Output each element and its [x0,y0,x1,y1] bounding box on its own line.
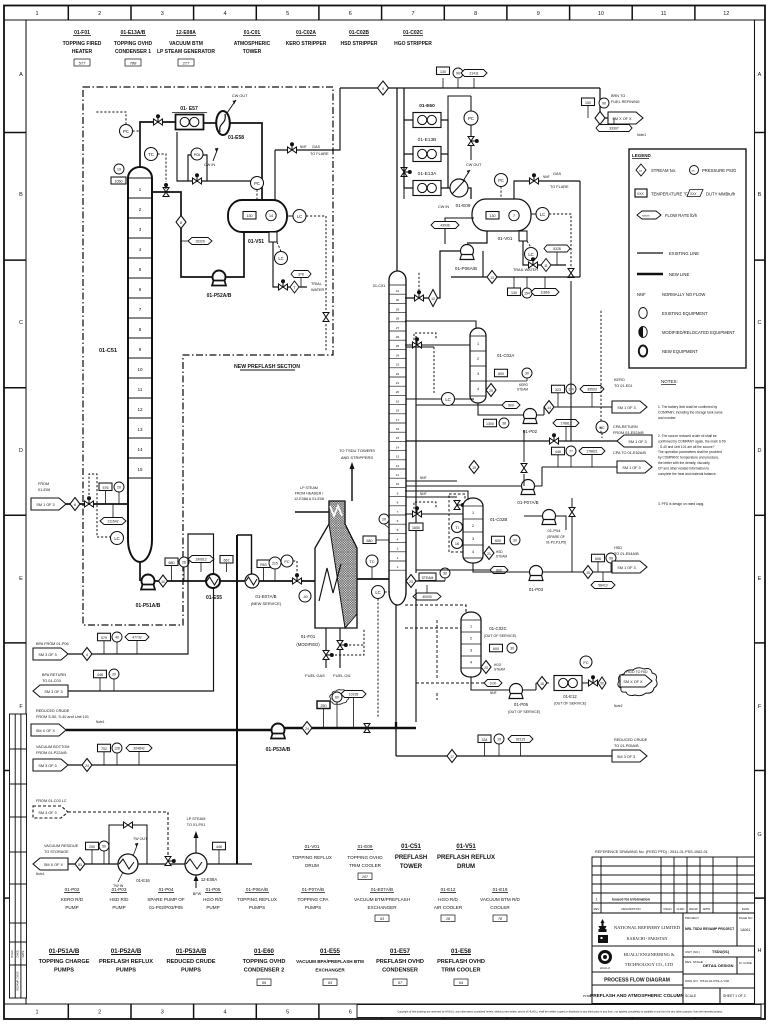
svg-text:HGO R/D: HGO R/D [438,897,458,902]
exchanger 01-E58 [216,111,230,135]
svg-text:10195: 10195 [349,693,359,697]
svg-text:Note1: Note1 [36,872,45,876]
svg-text:FC: FC [599,425,604,430]
svg-text:7: 7 [513,214,515,218]
column 01-C51 preflash tower [128,167,152,562]
svg-text:800: 800 [498,372,504,376]
wire C51 overhead [140,122,175,167]
trail water drain V01 [523,241,566,265]
svg-text:PC: PC [123,129,129,134]
C02A bottoms to pump 01-P02 [478,403,524,415]
svg-text:HGO TO R/D: HGO TO R/D [626,670,648,674]
svg-text:20: 20 [484,666,488,670]
pump 01-P06A/B [405,231,487,298]
svg-text:01-V01: 01-V01 [498,236,513,241]
svg-text:12: 12 [137,407,143,412]
stripper 01-C02C hgo stripper (out of service) [461,612,481,677]
HGO line to 01-E12 [523,683,550,690]
svg-text:DUTY MMBtu/h: DUTY MMBtu/h [706,192,736,197]
svg-text:800: 800 [508,404,514,408]
svg-text:SM 1 OF 3: SM 1 OF 3 [617,406,635,410]
svg-text:9: 9 [397,491,399,495]
svg-text:HSD STRIPPER: HSD STRIPPER [341,41,378,47]
top line to BRN [340,87,600,89]
valve NNF on LC line [323,313,329,322]
svg-text:01-E13B: 01-E13B [418,137,437,143]
svg-text:702: 702 [101,747,107,751]
svg-text:DATE: DATE [21,950,25,957]
svg-text:EXCHANGER: EXCHANGER [315,968,345,973]
svg-text:FC: FC [284,559,289,564]
svg-text:TOWER: TOWER [243,49,262,55]
svg-text:01-E60: 01-E60 [254,948,275,955]
svg-text:28: 28 [396,317,400,321]
svg-text:LC: LC [540,212,545,217]
svg-text:47732: 47732 [132,636,142,640]
svg-text:2: 2 [397,556,399,560]
svg-text:PC: PC [468,116,474,121]
svg-text:12-E08A: 12-E08A [201,877,218,882]
svg-text:10: 10 [161,580,165,584]
svg-text:REDUCED CRUDE: REDUCED CRUDE [166,959,215,965]
hexagon 43936 suction [445,218,474,244]
C51 tray lines [128,178,152,478]
svg-text:1300: 1300 [486,422,494,426]
bottom water line [451,251,580,277]
svg-text:250: 250 [89,845,95,849]
svg-text:60: 60 [335,696,339,700]
svg-text:KERO STRIPPER: KERO STRIPPER [286,41,327,47]
svg-text:LC: LC [297,214,302,219]
tags on P53 discharge with cloud [317,701,330,709]
svg-text:DSGN: DSGN [10,950,14,958]
svg-text:01-P51A/B: 01-P51A/B [49,948,80,955]
instrument LC boot [275,252,288,265]
svg-text:31: 31 [396,289,400,293]
tags right of C01 mid [409,523,423,531]
svg-text:10: 10 [137,367,143,372]
valve overhead [154,114,163,125]
svg-text:(OUT OF SERVICE): (OUT OF SERVICE) [484,634,517,638]
svg-text:7: 7 [411,11,414,17]
svg-text:24: 24 [85,764,89,768]
CPA product line [535,467,618,486]
vacuum residue line with exchangers [68,863,252,865]
diamond 20 [486,384,496,397]
svg-text:SPARE PUMP OF: SPARE PUMP OF [147,897,185,902]
svg-text:SM 3 OF 3: SM 3 OF 3 [38,811,56,815]
V01 boot and LC [519,231,527,241]
svg-text:DES. STAGE: DES. STAGE [685,960,703,964]
svg-text:NNF: NNF [637,292,646,297]
svg-text:APPD: APPD [703,907,711,911]
svg-text:6: 6 [349,1010,352,1016]
svg-text:30: 30 [443,572,447,576]
svg-text:MODIFIED/RELOCATED EQUIPMENT: MODIFIED/RELOCATED EQUIPMENT [662,330,735,335]
svg-text:20: 20 [112,673,116,677]
svg-text:23: 23 [409,580,413,584]
svg-text:01-C51: 01-C51 [99,348,117,354]
svg-text:01-E57: 01-E57 [390,948,411,955]
svg-text:D: D [758,448,762,454]
svg-text:01-E12: 01-E12 [441,887,456,892]
svg-text:TOPPING CPA: TOPPING CPA [298,897,330,902]
HUALU logo [598,950,612,964]
svg-text:PUMPS: PUMPS [181,968,201,974]
svg-text:CONDENSER 1: CONDENSER 1 [115,49,151,55]
svg-text:TO TSDU TOWERS: TO TSDU TOWERS [339,448,375,453]
svg-text:3: 3 [161,1010,164,1016]
svg-text:PREFLASH AND ATMOSPHERIC COLUM: PREFLASH AND ATMOSPHERIC COLUMN [590,993,684,998]
svg-text:G: G [757,832,761,838]
svg-text:STREAM No.: STREAM No. [651,168,676,173]
svg-text:LP STEAM GENERATOR: LP STEAM GENERATOR [157,49,215,55]
svg-text:NEW LINE: NEW LINE [669,272,689,277]
svg-text:600: 600 [493,647,499,651]
svg-text:01-E58: 01-E58 [228,135,244,141]
svg-text:01-E09: 01-E09 [456,203,471,208]
PC V01 [495,174,508,187]
C02B bottoms to pump 01-P03 [473,563,530,572]
svg-text:448: 448 [97,673,103,677]
svg-text:STEAM: STEAM [422,576,434,580]
svg-text:130: 130 [511,291,517,295]
svg-text:ATMOSPHERIC: ATMOSPHERIC [234,41,271,47]
svg-text:M. CODE: M. CODE [739,961,752,965]
svg-text:STEAM: STEAM [496,555,507,559]
svg-text:1A061: 1A061 [740,928,750,932]
svg-text:DSGN: DSGN [663,907,671,911]
svg-text:680: 680 [367,539,373,543]
steam into C01 bottom [406,580,445,582]
svg-text:REVW: REVW [689,907,698,911]
svg-text:xx: xx [692,169,696,173]
C01 overhead line [396,88,398,271]
svg-text:378: 378 [298,273,304,277]
instrument PC [120,125,133,138]
svg-text:KERO R/D: KERO R/D [61,897,84,902]
svg-text:15: 15 [396,436,400,440]
tag circle 19 [114,164,124,174]
cloud HGO TO R/D [618,668,657,696]
svg-text:CONDENSER 2: CONDENSER 2 [244,968,284,974]
svg-text:01-P02: 01-P02 [65,887,80,892]
svg-text:PDI: PDI [194,152,201,157]
svg-text:SM 3 OF 3: SM 3 OF 3 [617,755,635,759]
svg-text:1: 1 [472,511,474,515]
svg-text:12: 12 [396,464,400,468]
svg-text:HSD R/D: HSD R/D [110,897,130,902]
svg-text:9: 9 [537,11,540,17]
svg-text:17: 17 [396,418,400,422]
svg-text:01-F01: 01-F01 [301,634,316,639]
svg-text:by COMPANY, temperature and pr: by COMPANY, temperature and pressure, [658,456,719,460]
svg-text:LP STEAM: LP STEAM [187,817,206,821]
svg-text:HGO STRIPPER: HGO STRIPPER [394,41,432,47]
svg-text:01-C01: 01-C01 [373,284,385,288]
svg-text:446: 446 [555,450,561,454]
svg-text:xxxxx: xxxxx [642,214,650,218]
svg-text:21: 21 [487,552,491,556]
svg-text:NRL TSDU REVAMP PROJECT: NRL TSDU REVAMP PROJECT [685,927,735,931]
svg-text:SM 3 OF 3: SM 3 OF 3 [44,690,62,694]
svg-text:AND STRIPPERS: AND STRIPPERS [341,455,374,460]
tag hexagon 16326 [181,240,188,242]
exchanger 01-E16 [118,854,138,874]
C01 tray numbers [396,289,400,569]
svg-text:REVAMP CHGS: REVAMP CHGS [16,971,20,990]
svg-text:SM 3 OF 3: SM 3 OF 3 [38,653,56,657]
svg-text:TW IN: TW IN [113,884,124,888]
svg-text:FROM 01-C03 LC: FROM 01-C03 LC [36,799,67,803]
svg-text:25: 25 [396,344,400,348]
svg-text:9: 9 [382,87,384,91]
exchanger 01-E07A/B [245,574,259,588]
svg-text:1: 1 [477,342,479,346]
NRL logo [598,919,608,943]
svg-text:11866: 11866 [540,291,549,295]
svg-text:215: 215 [272,562,278,566]
svg-text:600: 600 [495,539,501,543]
svg-text:CW IN: CW IN [204,163,215,167]
svg-text:3: 3 [470,649,472,653]
svg-text:BPA FROM 01-P06: BPA FROM 01-P06 [36,642,69,646]
tag box 680 left of C01 [363,536,376,544]
svg-text:19: 19 [396,399,400,403]
svg-text:90: 90 [602,102,606,106]
svg-text:HUALU: HUALU [600,966,610,970]
svg-text:14: 14 [137,447,143,452]
svg-text:446: 446 [216,845,222,849]
top tags 130 90 21411 [442,78,444,88]
svg-text:NNF: NNF [420,492,427,496]
svg-text:XXX: XXX [637,192,645,196]
svg-text:TO 01-E54A/B: TO 01-E54A/B [614,552,639,556]
svg-text:PUMPS: PUMPS [249,905,265,910]
svg-text:SM X OF X: SM X OF X [612,117,632,121]
svg-text:REFERENCE DRAWING No. (FEED PF: REFERENCE DRAWING No. (FEED PFD) : 2511-… [595,850,708,854]
svg-text:B: B [758,192,762,198]
svg-text:14: 14 [269,214,273,218]
svg-text:01-P53A/B: 01-P53A/B [176,948,207,955]
svg-text:confirmed by COMPANY again, th: confirmed by COMPANY again, the mark S-5… [658,439,726,443]
hexagon 190812 [188,556,214,563]
bypass over 01-E16 [109,825,147,864]
C51 feed line from 01-E06 [66,503,128,505]
svg-text:20: 20 [382,518,386,522]
svg-text:2. The source reduced crude oi: 2. The source reduced crude oil shall be [658,434,717,438]
svg-text:788: 788 [130,61,137,66]
border frame inner [4,19,765,21]
gas to flare line [275,88,340,150]
svg-text:TO 01-P01: TO 01-P01 [187,823,206,827]
svg-text:PUMP: PUMP [206,905,219,910]
svg-text:20: 20 [396,390,400,394]
legend box [629,149,746,368]
svg-text:TC: TC [369,559,374,564]
PC with valve top right [464,111,478,125]
svg-text:20: 20 [117,486,121,490]
tags before heater [257,560,270,568]
risers to preflash circuit [236,535,238,864]
steam stub to C02C [416,682,484,684]
svg-text:13: 13 [137,427,143,432]
svg-text:01-P03: 01-P03 [529,587,544,592]
exchanger 01-E13B [413,147,441,162]
svg-text:FUEL REFINING: FUEL REFINING [611,100,640,104]
svg-text:REDUCED CRUDE: REDUCED CRUDE [36,709,70,713]
svg-text:TI: TI [455,526,458,530]
svg-text:BFW: BFW [193,892,202,896]
svg-text:TO FLARE: TO FLARE [550,185,569,189]
svg-text:D: D [19,448,23,454]
svg-text:H: H [758,948,762,954]
svg-text:16: 16 [455,542,459,546]
trial water drain [273,242,307,287]
steam stub to C02A [416,404,502,406]
svg-text:LC: LC [375,590,380,595]
svg-text:FROM HEADER /: FROM HEADER / [295,492,324,496]
instrument LC C02A [406,398,442,400]
svg-text:01-E06: 01-E06 [38,488,50,492]
stripper 01-C02B hsd stripper [463,498,483,563]
svg-text:SM X OF X: SM X OF X [36,729,56,733]
C01 bottom LC [372,586,385,599]
svg-text:CHKD: CHKD [16,950,20,957]
svg-text:1: 1 [35,11,38,17]
svg-text:E: E [19,576,23,582]
steam header vertical [415,336,417,573]
svg-text:96: 96 [609,557,613,561]
svg-text:FROM S-50, S-40 and Unit 101: FROM S-50, S-40 and Unit 101 [36,715,89,719]
svg-text:TOPPING OVHD: TOPPING OVHD [347,855,383,860]
svg-text:1. The battery limit shall be: 1. The battery limit shall be confirmed … [658,405,717,409]
svg-text:01-C02B: 01-C02B [490,517,507,522]
svg-text:12: 12 [431,297,435,301]
exchanger 01-E55 [206,574,220,588]
svg-text:FROM 01-E52A/B: FROM 01-E52A/B [613,431,644,435]
diamond 24 [302,722,312,735]
svg-text:12: 12 [723,11,729,17]
svg-text:PUMPS: PUMPS [116,968,136,974]
svg-text:TRIM COOLER: TRIM COOLER [349,863,382,868]
svg-text:128: 128 [114,747,120,751]
svg-text:01-E07A/B: 01-E07A/B [255,594,276,599]
svg-text:KERO: KERO [519,383,529,387]
svg-text:TO 01-C03: TO 01-C03 [42,679,61,683]
svg-text:14: 14 [396,445,400,449]
exchanger 01-E13A [413,181,441,196]
diamond 9 [378,81,389,95]
svg-text:576: 576 [103,486,109,490]
svg-text:COOLER: COOLER [490,905,510,910]
svg-text:130: 130 [490,214,496,218]
svg-text:579: 579 [101,636,107,640]
instrument TC [145,148,158,161]
svg-text:8: 8 [397,501,399,505]
svg-text:01-P53A/B: 01-P53A/B [266,747,291,753]
bottom equipment labels band3 [39,948,485,986]
svg-text:CW OUT: CW OUT [466,163,482,167]
svg-text:CONDENSER: CONDENSER [382,968,418,974]
svg-text:50: 50 [600,682,604,686]
svg-text:PROCESS FLOW DIAGRAM: PROCESS FLOW DIAGRAM [604,978,670,984]
svg-text:01-E16: 01-E16 [136,878,150,883]
svg-text:The operation parameters shall: The operation parameters shall be provid… [658,450,722,454]
svg-text:26: 26 [396,335,400,339]
svg-text:Note2: Note2 [614,704,623,708]
svg-text:PFMP: PFMP [583,994,591,998]
wire V51 vapor [274,150,276,200]
svg-text:4: 4 [397,537,399,541]
C51 tray numbers [137,187,143,472]
svg-text:PUMP: PUMP [65,905,78,910]
svg-text:01-E19: 01-E19 [493,887,508,892]
svg-text:11: 11 [661,11,667,17]
svg-text:39593: 39593 [587,388,597,392]
svg-text:7: 7 [397,510,399,514]
svg-text:NOTES:: NOTES: [661,379,678,384]
CPA draw to pump 01-P07A/B [406,485,522,487]
condenser manifold [404,88,413,188]
svg-text:UNIT (NO.): UNIT (NO.) [685,950,700,954]
wire C01 to C02B [405,491,468,514]
svg-text:01-V01: 01-V01 [305,844,320,849]
svg-text:CP and other related informati: CP and other related information to [658,466,709,470]
svg-text:01-P2,P3,P5): 01-P2,P3,P5) [546,541,566,545]
svg-text:FUEL GAS: FUEL GAS [305,673,325,678]
svg-text:EXCHANGER: EXCHANGER [367,905,397,910]
svg-text:HGO R/D: HGO R/D [203,897,223,902]
svg-text:DATE: DATE [742,907,749,911]
svg-text:3: 3 [472,537,474,541]
svg-text:DESCRIPTION: DESCRIPTION [621,907,640,911]
svg-text:A: A [758,72,762,78]
svg-text:17: 17 [450,755,454,759]
svg-text:130: 130 [247,214,253,218]
svg-text:TOWER: TOWER [400,864,423,870]
exchanger 12-E08A steam generator [185,853,207,875]
svg-text:01-E58: 01-E58 [451,948,472,955]
LP steam inlet [295,511,329,513]
svg-text:30: 30 [396,298,400,302]
svg-text:15: 15 [586,571,590,575]
svg-text:A: A [19,72,23,78]
svg-text:(NEW SERVICE): (NEW SERVICE) [251,601,282,606]
svg-text:1: 1 [35,1010,38,1016]
svg-text:XXX: XXX [689,192,697,196]
svg-text:90: 90 [456,72,460,76]
svg-text:LC: LC [114,536,119,541]
svg-text:4: 4 [223,11,226,17]
V01 gas to flare [514,181,580,277]
svg-text:2: 2 [477,357,479,361]
svg-text:DRUM: DRUM [305,863,319,868]
vertical from V01 water line down [570,281,572,441]
LP steam out 12-E08A [195,837,197,853]
NEW PREFLASH SECTION dashed boundary [83,87,333,625]
svg-text:21: 21 [396,381,400,385]
svg-text:5: 5 [397,528,399,532]
BRN TO FUEL REFINING stream out [600,88,608,118]
svg-text:154: 154 [524,292,530,296]
C51 bottoms to pump 01-P51A/B [139,562,141,581]
svg-text:AIR COOLER: AIR COOLER [434,905,463,910]
svg-text:TOPPING REFLUX: TOPPING REFLUX [237,897,277,902]
svg-text:92115: 92115 [516,738,525,742]
svg-text:VACUUM BPA/PREFLASH BTM: VACUUM BPA/PREFLASH BTM [296,959,364,964]
svg-text:TO STORAGE: TO STORAGE [44,850,69,854]
